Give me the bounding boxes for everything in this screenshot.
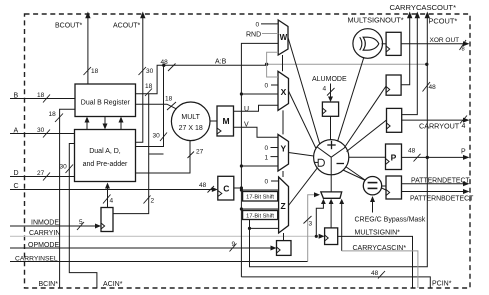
wire arrow up between dual boxes right [119,117,124,130]
svg-text:48: 48 [429,84,437,91]
wire INMODE reg to pre-adder [103,183,114,208]
wire INMODE bits to B register [113,94,164,214]
svg-text:INMODE: INMODE [31,220,59,227]
svg-text:CARRYCASCOUT*: CARRYCASCOUT* [390,3,457,12]
wire BCIN cascade [39,109,76,288]
svg-text:0: 0 [265,83,269,90]
svg-text:W: W [280,33,288,42]
wire A:B to X mux [240,92,278,95]
ALU circle [314,140,349,175]
svg-text:CARRYIN: CARRYIN [29,230,60,237]
wire C to Z mux [240,207,279,210]
svg-text:V: V [244,122,249,129]
wire comparator to pattern register [382,185,386,187]
svg-text:MULTSIGNOUT*: MULTSIGNOUT* [348,16,404,25]
wire A input [10,127,75,138]
svg-text:4: 4 [462,123,466,130]
wire C input [10,182,218,193]
wire CARRYOUT output [402,116,470,131]
mux W [278,20,288,55]
wire MULTSIGNIN cascade [338,230,413,289]
wire D input [10,170,75,181]
wire Y input 0 [265,145,279,152]
wire AD to multiplier [136,141,204,173]
wire PATTERNBDETECT output [402,189,475,203]
svg-text:27: 27 [37,170,45,177]
svg-text:MULTSIGNIN*: MULTSIGNIN* [355,230,401,237]
register Dual B Register [75,84,136,117]
svg-text:18: 18 [91,68,99,75]
register CARRYOUT [387,108,402,132]
svg-text:ACOUT*: ACOUT* [113,23,141,30]
svg-text:17-Bit Shift: 17-Bit Shift [246,214,274,220]
wire C bus vertical [234,43,278,277]
svg-text:P: P [391,153,397,163]
wire U partial product [234,105,278,113]
svg-text:Dual B Register: Dual B Register [81,100,131,107]
svg-text:0: 0 [265,145,269,152]
wire Y input 1 [265,154,279,161]
svg-text:1: 1 [265,154,269,161]
register OPMODE [277,241,292,256]
wire P cascade vertical [423,12,437,158]
wire B to A:B concat [136,65,164,96]
svg-text:and Pre-adder: and Pre-adder [83,161,128,168]
register M [217,106,234,136]
svg-text:CARRYINSEL: CARRYINSEL [15,255,58,262]
mux Z [279,177,289,233]
svg-text:A: A [14,128,19,135]
svg-text:PCIN*: PCIN* [432,280,452,287]
wire arrow up between dual boxes left [85,117,90,130]
mux Y [278,134,289,171]
label CREG C bypass mask [355,196,426,224]
svg-text:18: 18 [37,92,45,99]
register Dual A, D, and Pre-adder [75,130,136,182]
pattern comparator = [363,177,381,195]
wire ALU to comparator [346,167,366,181]
wire P output [402,148,470,162]
svg-text:OPMODE: OPMODE [28,242,59,249]
wire B to multiplier [136,96,178,111]
svg-text:30: 30 [60,164,68,171]
svg-text:BCOUT*: BCOUT* [55,23,83,30]
svg-text:48: 48 [199,182,207,189]
wire C to Y mux [241,165,278,167]
wire ALU to carryout register [347,120,387,152]
svg-text:ACIN*: ACIN* [103,281,123,288]
svg-text:XOR OUT: XOR OUT [430,37,460,44]
wire mux select column [283,55,284,241]
svg-text:48: 48 [161,59,169,66]
svg-text:P: P [461,149,466,156]
svg-text:CREG/C Bypass/Mask: CREG/C Bypass/Mask [355,217,426,224]
wire W mux to ALU [288,38,321,147]
carry mux trapezoid [321,192,342,198]
multiplier MULT 27x18 [171,102,210,141]
wire PCIN cascade bottom [241,270,451,288]
svg-text:X: X [281,87,287,97]
svg-text:18: 18 [49,111,57,118]
shift box PCIN 17-bit [243,192,278,202]
wire arrow down between dual boxes middle [103,117,108,130]
svg-text:0: 0 [256,22,260,29]
register MULTSIGNOUT [386,75,401,95]
wire P to X mux [267,64,278,77]
register P [386,144,402,170]
wire Z input 0 [265,179,279,186]
wire P feedback to Z [248,157,427,266]
svg-text:MULT: MULT [181,114,200,121]
svg-text:48: 48 [408,148,416,155]
register XOR out [386,32,401,55]
wire PCIN to Z mux [240,188,279,191]
svg-text:PATTERNBDETECT: PATTERNBDETECT [410,196,474,203]
register ALUMODE [322,102,338,116]
svg-text:D: D [14,170,19,177]
svg-text:27 X 18: 27 X 18 [179,125,203,132]
svg-text:0: 0 [265,179,269,186]
svg-text:18: 18 [165,96,173,103]
svg-text:30: 30 [146,68,154,75]
svg-text:2: 2 [151,198,155,205]
wire ALU to carry mux [330,175,332,192]
svg-text:48: 48 [371,270,379,277]
wire A to A:B concat [136,65,168,146]
svg-text:M: M [222,116,229,126]
wire X mux to ALU [289,91,317,150]
svg-text:30: 30 [37,127,45,134]
wire W input RND [246,32,278,39]
svg-text:BCIN*: BCIN* [39,281,59,288]
svg-text:C: C [223,184,229,194]
wire ACIN cascade [60,144,123,289]
label ALUMODE [312,76,347,102]
svg-text:27: 27 [196,149,204,156]
shift box P 17-bit [243,211,278,220]
svg-text:B: B [14,93,19,100]
wire CARRYIN input [10,230,316,237]
wire ALU to multsignout register [345,86,387,148]
wire multiplier to M register [210,120,217,122]
wire ALU to P register [349,156,386,158]
svg-text:ALUMODE: ALUMODE [312,76,347,83]
wire ALU to xor gate [338,58,364,141]
wire XOR OUT output [401,37,469,53]
register INMODE [101,208,113,232]
wire Y mux to ALU [289,153,314,157]
svg-text:A:B: A:B [215,59,227,66]
svg-text:30: 30 [153,133,161,140]
wire carryin direct to carry mux [315,199,326,239]
svg-text:CARRYCASCIN*: CARRYCASCIN* [353,245,407,252]
wire OPMODE input [10,241,277,252]
mux X [278,71,289,110]
svg-text:U: U [244,106,249,113]
svg-text:4: 4 [110,198,114,205]
wire INMODE input [10,219,101,230]
register CARRYIN [325,228,338,245]
svg-text:RND: RND [246,32,261,39]
wire CARRYCASCIN cascade [342,245,418,288]
wire xor gate to xor register [382,43,387,45]
wire CARRYCASCOUT output [402,12,420,115]
wire carrycascin to carry mux [339,199,344,251]
svg-text:Z: Z [281,201,286,211]
wire W input 0 [256,22,279,29]
wire B input [10,92,75,103]
wire CARRYINSEL input [10,192,320,262]
wire ALUMODE reg to ALU [330,116,332,139]
wire X input 0 [265,83,279,90]
wire P to W mux [267,52,279,64]
svg-text:PCOUT*: PCOUT* [429,17,458,26]
wire V partial product [234,122,278,138]
wire Z mux to ALU [289,167,318,205]
svg-text:3: 3 [309,221,313,228]
svg-text:8: 8 [462,47,465,53]
wire ACOUT output [113,12,154,143]
svg-text:4: 4 [323,86,327,93]
svg-text:CARRYOUT: CARRYOUT [419,122,460,131]
svg-text:PATTERNDETECT: PATTERNDETECT [411,178,470,185]
wire A:B bus [161,59,267,72]
svg-text:Dual A, D,: Dual A, D, [89,148,121,155]
wire PATTERNDETECT output [402,178,471,187]
wire ALU to pattern register [343,170,386,190]
wire MULTSIGNOUT output [401,12,412,85]
register C [218,176,234,200]
svg-text:Y: Y [281,144,287,154]
svg-text:17-Bit Shift: 17-Bit Shift [246,195,274,201]
wire BCOUT output [55,12,99,85]
wire carryin reg to carry mux [329,199,334,228]
register pattern detect [386,176,402,199]
wire P feedback top bus [265,63,429,66]
xor gate circle [353,29,383,59]
svg-text:C: C [14,183,19,190]
